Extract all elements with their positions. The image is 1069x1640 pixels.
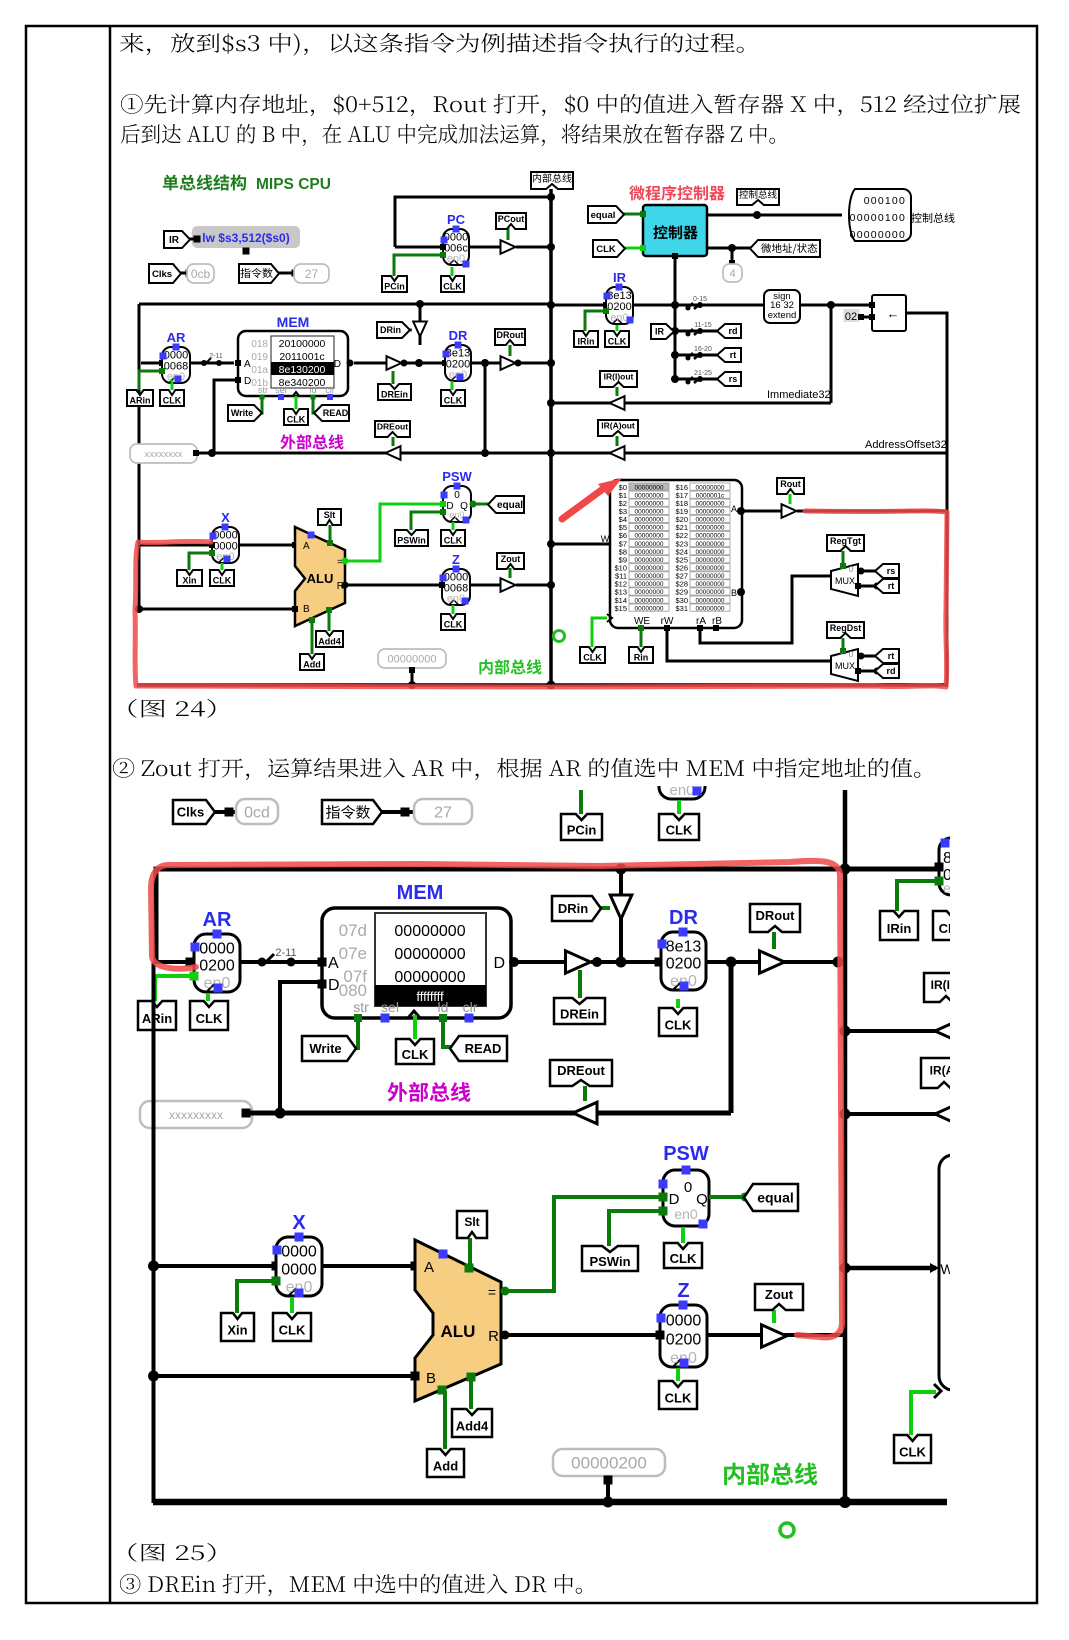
left vertical wire from top bus [138,304,141,609]
tri-state DREin [387,356,402,370]
微地址/状态 tag [707,247,756,250]
svg-text:PSWin: PSWin [397,536,425,546]
wire Z out to Zout buffer [470,584,501,587]
IR(A)out tag clipped fig25 [921,1058,967,1088]
PSWin tag and wire fig25 [609,1211,663,1246]
PCin tag and wire [394,255,443,276]
xxxxxxxx pill [130,444,197,463]
register PSW [443,486,471,522]
svg-text:B: B [731,588,737,598]
IR(I)out tag [616,387,619,396]
svg-text:16-20: 16-20 [694,346,712,353]
register DR [442,360,448,366]
controller CLK tag [618,247,643,250]
Add4 tag [328,610,331,631]
svg-text:DREout: DREout [377,422,408,432]
svg-text:00000000: 00000000 [696,533,725,540]
svg-text:Add: Add [303,660,321,670]
svg-text:rs: rs [729,374,738,384]
svg-text:CLK: CLK [163,396,182,406]
00000000 pill and stub [378,649,446,668]
svg-text:PSW: PSW [663,1143,709,1165]
svg-text:00000000: 00000000 [696,484,725,491]
RegDst tag and wire [842,638,845,652]
register X fig25 [155,1264,276,1268]
svg-text:2-11: 2-11 [209,353,223,360]
svg-text:0000001c: 0000001c [696,492,725,499]
PSW CLK tag fig25 [681,1227,685,1243]
pill 4 [731,250,734,264]
svg-text:CLK: CLK [443,282,462,292]
equal tag fig25 [709,1195,751,1199]
register Z fig25 [660,1305,707,1367]
IR instruction tag [180,238,197,241]
svg-text:ld: ld [438,999,449,1015]
instruction pill 27 fig25 [414,799,472,824]
ALU [295,527,345,626]
内部总线 tag top [531,172,573,189]
PC CLK tag fig25 [677,800,681,814]
paragraph line 3 [121,124,775,146]
svg-text:CLK: CLK [899,1445,926,1460]
svg-text:equal: equal [757,1190,794,1206]
svg-text:CLK: CLK [665,1018,692,1033]
DRout tag [509,345,512,356]
Rin tag and wire [640,629,643,647]
02 constant [844,309,860,322]
top bus fig25 [156,869,935,962]
ARin tag and wire [139,371,162,390]
MEM D input pin [235,377,241,383]
svg-text:ALU: ALU [307,571,334,586]
W input line fig25 [845,1266,936,1271]
svg-text:00000000: 00000000 [394,969,465,986]
svg-text:PSW: PSW [442,469,472,484]
svg-text:DRout: DRout [756,908,796,923]
svg-text:02: 02 [845,311,857,323]
svg-text:ALU: ALU [441,1322,476,1341]
svg-text:00000000: 00000000 [635,565,664,572]
external bus vertical fig25 [729,963,734,1113]
wire shifter out to right rail [906,313,947,684]
svg-text:Slt: Slt [324,510,336,520]
svg-text:0: 0 [849,650,854,659]
svg-text:rd: rd [729,326,738,336]
svg-text:CLK: CLK [279,1323,306,1338]
外部总线 label [280,434,343,449]
svg-text:00000000: 00000000 [850,229,906,241]
svg-text:00000000: 00000000 [696,605,725,612]
svg-text:IR: IR [655,327,665,337]
svg-text:Rin: Rin [634,653,649,663]
PCout tag [507,228,510,240]
svg-text:0: 0 [849,565,854,574]
svg-text:CLK: CLK [196,1011,223,1026]
MEM D input pin fig25 [318,980,327,989]
wire DR out to DRout buffer [471,362,501,365]
svg-text:=: = [488,1284,496,1300]
tap 21-25 to rs [675,378,722,381]
svg-text:0200: 0200 [199,958,235,975]
READ tag fig25 [443,1021,459,1047]
rB pin [713,625,719,631]
Clks tag [172,272,190,275]
svg-text:D: D [493,955,505,972]
svg-text:2011001c: 2011001c [279,351,324,363]
AR clock CLK tag [171,380,174,390]
clock count pill 0cb [187,264,214,283]
svg-text:0cd: 0cd [244,804,270,821]
svg-text:0-15: 0-15 [693,296,707,303]
内部总线 label fig24 [479,659,541,674]
wire controller to control bus display [707,214,842,217]
DREin tag fig25 [578,970,582,998]
svg-text:00000000: 00000000 [394,923,465,940]
svg-text:00000000: 00000000 [635,573,664,580]
svg-text:READ: READ [465,1041,502,1056]
table column divider [109,26,112,1603]
rs rt input tags for RegTgt [858,570,880,573]
svg-text:000100: 000100 [864,195,906,207]
svg-text:DRin: DRin [558,901,588,916]
immediate shifter box [872,295,906,331]
svg-text:IRin: IRin [887,921,912,936]
ALU R output wire to Z [345,584,443,587]
bit splitter 0-15 [686,303,693,309]
equal tag from PSW [471,503,494,506]
svg-text:CLK: CLK [213,576,232,586]
svg-text:00000000: 00000000 [635,492,664,499]
Add tag fig25 [443,1391,447,1449]
wire controller bottom to bit taps [672,253,678,259]
内部总线 label fig25 [724,1462,817,1485]
svg-text:DREin: DREin [560,1007,599,1022]
paragraph line 1 [120,33,744,56]
svg-text:MEM: MEM [397,882,444,904]
Slt tag fig25 [468,1238,472,1267]
bottom internal bus fig25 [153,1499,947,1506]
paragraph line 2 (step 1) [121,94,1020,116]
Rout tag [789,494,792,504]
svg-text:ARin: ARin [130,396,151,406]
left vertical wire fig25 [152,962,156,1503]
tri-state DREout on external bus [386,446,401,460]
svg-text:A: A [424,1259,434,1276]
svg-text:IR(A)out: IR(A)out [601,421,635,431]
svg-text:11-15: 11-15 [694,322,711,329]
red highlight loop fig24 [135,511,947,687]
svg-text:00000000: 00000000 [696,525,725,532]
svg-text:en0: en0 [674,1206,698,1222]
PCin tag fig25 [579,790,583,814]
svg-text:CLK: CLK [596,244,616,255]
Zout tag [509,568,512,578]
wire sign extend to shifter [800,304,872,307]
tri-state DREin fig25 [566,951,591,973]
svg-text:0000: 0000 [281,1261,317,1278]
svg-text:00000000: 00000000 [635,557,664,564]
svg-text:DR: DR [449,328,468,343]
svg-text:D: D [244,376,251,387]
tri-state DRout fig25 [760,951,785,973]
MEM row top bus wire [139,303,551,306]
IR CLK tag clipped fig25 [933,911,971,940]
svg-text:sel: sel [275,385,287,395]
Slt tag [329,525,332,544]
svg-text:rt: rt [730,350,737,360]
register PC [443,229,469,265]
register file clipped fig25 [939,1155,1059,1390]
X clock CLK tag [221,563,224,570]
svg-text:00000000: 00000000 [696,541,725,548]
svg-text:R: R [488,1328,499,1345]
MEM box [238,331,348,396]
svg-text:CLK: CLK [608,337,627,347]
READ tag [313,399,320,413]
tri-state DREout fig25 [573,1102,597,1124]
svg-text:00000000: 00000000 [635,509,664,516]
DR CLK tag fig25 [676,999,680,1008]
svg-text:PCin: PCin [567,823,597,838]
svg-text:00000000: 00000000 [696,597,725,604]
right vertical bus fig25 [843,790,848,1503]
tap 11-15 to rd [675,330,722,333]
svg-text:AddressOffset32: AddressOffset32 [865,439,947,451]
svg-text:2-11: 2-11 [275,947,296,959]
控制总线 text right [911,213,954,223]
svg-text:str: str [353,999,369,1015]
svg-text:8e130200: 8e130200 [279,364,326,376]
svg-text:xxxxxxxxx: xxxxxxxxx [169,1108,223,1122]
svg-text:equal: equal [591,210,616,221]
svg-text:CLK: CLK [444,536,463,546]
svg-text:Rout: Rout [780,479,801,489]
DR clock CLK tag [451,381,454,390]
caption figure 25 [129,1543,216,1562]
svg-text:rt: rt [888,581,895,591]
svg-text:AR: AR [167,330,186,345]
AR CLK tag fig25 [206,993,210,1001]
MEM box fig25 [322,908,511,1018]
svg-text:019: 019 [251,352,268,363]
svg-text:00000000: 00000000 [394,946,465,963]
ALU equal output to PSW fig25 [501,1197,660,1291]
svg-text:X: X [292,1212,306,1234]
svg-text:PCout: PCout [498,214,525,224]
svg-text:00000000: 00000000 [696,500,725,507]
Z CLK tag fig25 [676,1368,680,1381]
external bus horizontal fig25 [250,1111,731,1116]
wire ALU B input fig25 [153,1374,415,1378]
svg-text:Slt: Slt [464,1215,479,1229]
ALU R output to Z fig25 [501,1333,660,1337]
svg-text:PC: PC [447,212,466,227]
Zout tag fig25 [772,1310,776,1323]
green status circle fig24 [554,631,565,642]
ARin tag and wire fig25 [155,976,194,1001]
00000200 pill and stub fig25 [553,1449,665,1476]
Xin tag and wire fig25 [237,1281,276,1313]
svg-text:Zout: Zout [501,554,521,564]
svg-text:0000: 0000 [281,1244,317,1261]
IR small tag [651,324,674,339]
wire PC top loop [395,197,551,247]
svg-text:20100000: 20100000 [279,338,326,350]
svg-text:07e: 07e [339,944,367,963]
wire PC input [395,246,443,249]
Xin tag and wire [189,553,212,570]
svg-text:00000000: 00000000 [696,517,725,524]
svg-text:0cb: 0cb [191,267,211,281]
svg-text:B: B [303,604,310,615]
svg-text:CLK: CLK [670,1251,697,1266]
register IR [551,304,606,307]
regfile CLK tag fig25 [911,1392,936,1435]
svg-text:RegTgt: RegTgt [830,536,861,546]
svg-text:READ: READ [323,408,349,418]
svg-text:00000000: 00000000 [635,500,664,507]
svg-text:Clks: Clks [177,805,204,820]
svg-text:ld: ld [309,385,316,395]
svg-text:00000000: 00000000 [696,557,725,564]
svg-text:RegDst: RegDst [830,623,862,633]
tri-state IR(A)out [610,446,625,460]
svg-text:CLK: CLK [402,1047,429,1062]
instruction count pill 27 [294,264,329,283]
svg-text:00000000: 00000000 [635,525,664,532]
wire MEM D out to DREin buffer [354,362,386,365]
DRin vertical and buffer [419,304,422,345]
mux RegTgt [831,564,858,596]
svg-text:CLK: CLK [287,415,306,425]
Clks tag fig25 [208,810,236,814]
tri-state Zout fig25 [762,1325,787,1347]
svg-text:Z: Z [677,1280,689,1302]
rt rd input tags for RegDst [858,655,880,658]
svg-text:extend: extend [768,310,797,321]
svg-text:00000100: 00000100 [850,212,906,224]
X CLK tag fig25 [290,1297,294,1313]
svg-text:DRout: DRout [497,330,524,340]
svg-text:0200: 0200 [666,1331,702,1348]
wire regfile A out through Rout [741,510,782,513]
AddressOffset32 line [551,452,947,455]
svg-text:018: 018 [251,339,268,350]
svg-text:en0: en0 [610,312,628,324]
svg-text:A: A [328,955,339,972]
svg-text:clr: clr [325,385,335,395]
svg-text:AR: AR [203,909,232,931]
DREout tag fig25 [583,1086,587,1101]
svg-text:00000000: 00000000 [635,589,664,596]
svg-text:DR: DR [669,907,698,929]
svg-text:$15: $15 [614,604,627,613]
svg-text:Q: Q [696,1191,708,1208]
svg-text:00000000: 00000000 [696,589,725,596]
register AR [141,362,162,365]
svg-text:lw $s3,512($s0): lw $s3,512($s0) [202,231,289,245]
svg-text:DREin: DREin [381,390,408,400]
wire Z out to Zout fig25 [707,1333,845,1337]
svg-text:MIPS CPU: MIPS CPU [256,176,331,193]
Add4 tag fig25 [469,1377,473,1409]
svg-text:A: A [303,541,310,552]
svg-text:xxxxxxxx: xxxxxxxx [145,449,183,460]
DRin tag [404,329,412,332]
svg-text:4: 4 [729,268,735,280]
wire ALU B input [139,608,295,611]
tri-state IR(I)out [610,396,625,410]
instruction display lw $s3,512($s0) [192,226,300,248]
IRin tag and wire [585,311,606,331]
svg-text:X: X [221,510,230,525]
svg-text:A: A [244,359,251,370]
控制总线 tag [737,189,779,205]
svg-text:00000000: 00000000 [635,605,664,612]
svg-text:W: W [601,534,610,544]
svg-text:00000000: 00000000 [696,549,725,556]
svg-text:$31: $31 [675,604,688,613]
svg-text:MUX: MUX [835,576,855,586]
svg-text:0000: 0000 [666,1313,702,1330]
svg-text:←: ← [887,306,900,321]
Write tag fig25 [348,1021,358,1048]
DREin tag [392,371,395,384]
wire DR out fig25 [706,960,845,964]
svg-text:07d: 07d [339,921,367,940]
IR(A)out line fig25 [845,1112,947,1116]
svg-text:PCin: PCin [384,282,405,292]
svg-text:00000000: 00000000 [696,565,725,572]
register IR clipped fig25 [939,838,985,895]
svg-text:rd: rd [887,666,896,676]
svg-text:00000000: 00000000 [696,581,725,588]
svg-text:Add4: Add4 [318,637,341,647]
sign extend box [764,290,800,323]
tri-state buffer PCout [469,246,501,249]
wire 0-15 vertical to immediate line [830,305,833,403]
bottom internal bus [137,683,948,687]
svg-text:Immediate32: Immediate32 [767,389,831,401]
equal tag to controller [617,213,643,216]
wire rA to RegTgt mux output [697,625,703,631]
PSWin tag and wire [411,512,443,530]
regfile CLK tag and wire [592,618,607,647]
svg-text:CLK: CLK [666,823,693,838]
svg-text:Write: Write [231,408,253,418]
svg-text:Xin: Xin [182,576,196,586]
svg-text:Add4: Add4 [456,1419,489,1434]
svg-text:Z: Z [452,552,460,567]
control word display [849,189,911,241]
svg-text:PSWin: PSWin [589,1254,630,1269]
clock pill 0cd fig25 [236,799,278,824]
外部总线 label fig25 [387,1082,470,1102]
IRin tag and wire fig25 [897,881,939,911]
svg-text:0000: 0000 [199,940,235,957]
svg-text:sel: sel [381,999,399,1015]
svg-text:Add: Add [433,1459,458,1474]
svg-text:B: B [426,1370,436,1387]
ALU fig25 [415,1240,501,1401]
wire MEM D to DREin fig25 [511,960,566,964]
register X [139,544,212,547]
svg-text:00000000: 00000000 [696,573,725,580]
svg-text:D: D [334,359,341,370]
svg-text:clr: clr [463,999,478,1015]
svg-text:IR(I)out: IR(I)out [604,372,634,382]
svg-text:rt: rt [888,651,895,661]
